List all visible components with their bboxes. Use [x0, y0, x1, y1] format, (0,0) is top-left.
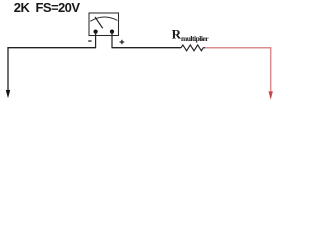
meter terminal dot left [94, 30, 98, 34]
meter needle [95, 17, 103, 28]
meter M1 body [89, 13, 119, 36]
svg-text:2K FS=20V: 2K FS=20V [14, 0, 81, 15]
wire: red test lead horizontal + vertical [205, 48, 271, 92]
label: plus terminal [120, 40, 125, 44]
black probe arrowhead [6, 90, 10, 98]
meter terminal dot right [110, 30, 114, 34]
wire: short black stub after resistor [203, 47, 207, 49]
resistor Rmultiplier zigzag [181, 45, 203, 51]
svg-text:Rmultiplier: Rmultiplier [172, 26, 210, 43]
red probe arrowhead [269, 91, 273, 99]
wire: from meter + to resistor [112, 47, 181, 49]
wire: left lead from meter down [95, 32, 97, 49]
wire: right lead from meter down [111, 32, 113, 49]
label: minus terminal [88, 40, 91, 42]
wire: black test lead horizontal + vertical [8, 48, 96, 91]
meter scale arc [90, 17, 117, 21]
